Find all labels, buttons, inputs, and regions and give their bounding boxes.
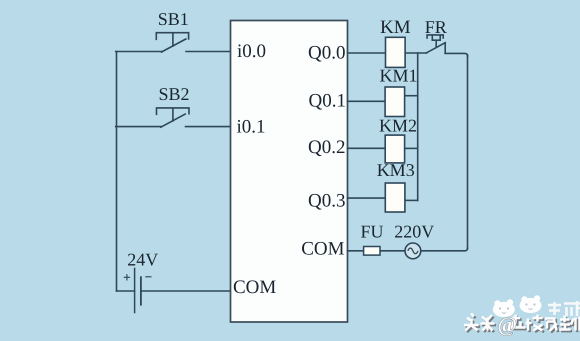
wire: right vertical bus	[467, 55, 469, 249]
svg-text:KM3: KM3	[377, 160, 415, 180]
watermark text 头条@技成培训	[464, 313, 580, 337]
watermark partial glyphs top right	[548, 301, 580, 316]
wire: battery right wire to COM	[141, 290, 231, 292]
wire: FR right wire	[445, 53, 467, 56]
wire: left vertical bus	[116, 52, 118, 292]
watermark mascot face 1	[493, 299, 515, 317]
pushbutton SB1 contact blade	[162, 39, 186, 52]
svg-text:Q0.3: Q0.3	[308, 190, 345, 211]
wire: Q0.3 output wire	[348, 197, 386, 199]
svg-text:FR: FR	[425, 17, 447, 37]
svg-text:SB1: SB1	[158, 9, 189, 29]
coil KM3	[385, 183, 405, 212]
contact FR blade	[426, 43, 445, 53]
wire: right coil bus	[417, 53, 419, 200]
pushbutton SB1 actuator cap	[156, 33, 188, 46]
wire: KM2 right wire	[405, 147, 418, 149]
AC source sine wave	[408, 248, 418, 254]
pushbutton SB2 actuator cap	[157, 108, 190, 121]
coil KM1	[385, 87, 405, 117]
svg-text:COM: COM	[301, 239, 344, 260]
thermal relay FR heater element	[427, 35, 443, 47]
wire: SB2 right wire	[186, 126, 231, 128]
svg-text:24V: 24V	[127, 249, 158, 269]
wire: KM3 right wire	[405, 199, 418, 201]
battery 24V positive plate	[134, 269, 136, 313]
wire: fuse to source	[380, 250, 405, 252]
fuse FU	[364, 247, 380, 256]
svg-text:KM1: KM1	[379, 66, 417, 86]
PLC box	[231, 21, 348, 323]
battery minus sign	[145, 276, 151, 278]
battery plus sign	[124, 274, 130, 280]
wire: SB1 left wire	[116, 51, 162, 53]
svg-text:@: @	[498, 313, 518, 337]
svg-text:COM: COM	[233, 277, 276, 298]
battery 24V negative plate	[140, 277, 142, 305]
wire: battery left wire	[117, 290, 135, 292]
wire: Q0.1 output wire	[348, 100, 386, 102]
svg-text:KM2: KM2	[379, 115, 417, 135]
AC source 220V circle	[405, 243, 421, 259]
pushbutton SB2 contact blade	[161, 114, 185, 127]
svg-text:FU: FU	[360, 222, 383, 242]
svg-text:220V: 220V	[394, 222, 434, 242]
svg-text:Q0.0: Q0.0	[308, 42, 345, 63]
svg-text:Q0.2: Q0.2	[308, 137, 345, 158]
wire: KM1 right wire	[405, 95, 418, 97]
watermark mascot face 2	[520, 295, 542, 313]
svg-text:Q0.1: Q0.1	[309, 91, 346, 112]
wire: KM right wire	[405, 52, 426, 54]
svg-text:KM: KM	[380, 17, 411, 38]
wire: source to right bus	[421, 248, 468, 251]
wire: Q0.0 output wire	[348, 52, 386, 54]
svg-text:i0.1: i0.1	[237, 117, 266, 138]
svg-text:i0.0: i0.0	[237, 41, 266, 62]
coil KM	[386, 37, 406, 67]
wire: COM to fuse	[348, 250, 364, 252]
wire: SB2 left wire	[116, 126, 162, 128]
wire: SB1 right wire	[186, 51, 231, 53]
wire: Q0.2 output wire	[348, 147, 386, 149]
contact FR fixed terminal	[444, 43, 446, 54]
svg-text:SB2: SB2	[158, 84, 189, 104]
coil KM2	[385, 135, 404, 163]
